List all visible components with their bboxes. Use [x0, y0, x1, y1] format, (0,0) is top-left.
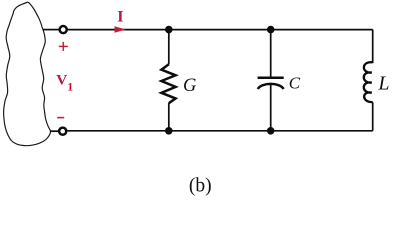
current arrow: [115, 26, 126, 33]
plus sign: [59, 42, 68, 51]
svg-text:L: L: [377, 73, 389, 95]
inductor L: [364, 62, 373, 102]
wire: capacitor branch top: [270, 30, 272, 77]
minus sign: [57, 117, 64, 119]
node: top capacitor junction: [267, 26, 275, 34]
node: bottom resistor junction: [165, 127, 173, 135]
capacitor C top plate: [258, 76, 284, 79]
resistor G: [161, 64, 175, 103]
node: top resistor junction: [165, 26, 173, 34]
wire: capacitor branch bottom: [270, 85, 272, 131]
terminal (top): [60, 26, 67, 33]
top wire: [67, 29, 373, 31]
bottom wire: [67, 130, 373, 132]
svg-text:(b): (b): [189, 176, 212, 197]
node: bottom capacitor junction: [267, 127, 275, 135]
svg-text:C: C: [289, 74, 301, 93]
svg-text:1: 1: [67, 80, 73, 94]
wire: resistor branch bottom: [168, 103, 170, 131]
wire: blob to top terminal: [43, 29, 59, 31]
terminal (bottom): [59, 128, 66, 135]
svg-text:G: G: [183, 76, 196, 96]
svg-text:I: I: [117, 9, 123, 26]
wire: resistor branch top: [168, 30, 170, 65]
source blob (hand-drawn outline): [4, 2, 51, 146]
wire: blob to bottom terminal: [50, 130, 59, 132]
capacitor C curved plate: [258, 84, 284, 89]
wire: right branch bottom: [372, 102, 374, 131]
wire: right branch top: [372, 30, 374, 63]
svg-text:V: V: [56, 71, 67, 88]
